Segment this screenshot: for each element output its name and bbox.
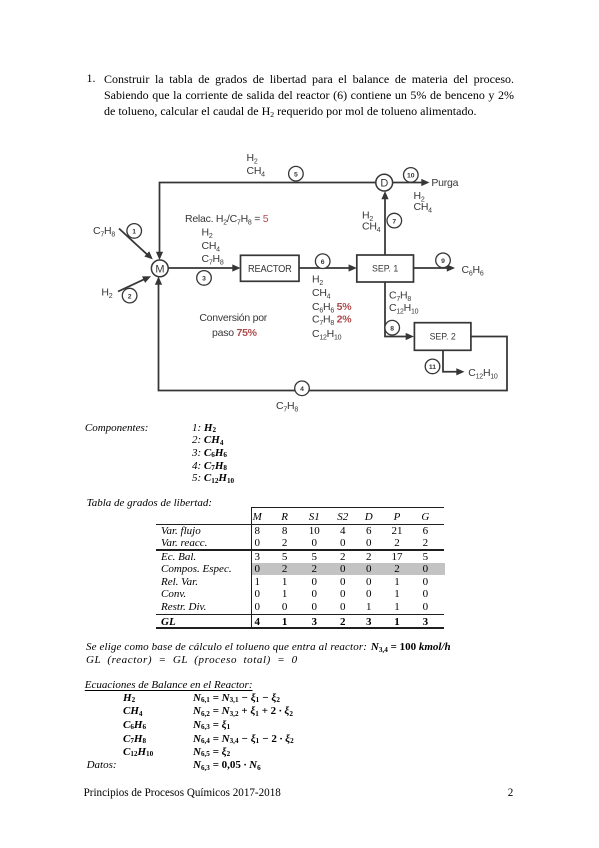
svg-text:1: 1 bbox=[132, 229, 136, 236]
svg-text:REACTOR: REACTOR bbox=[248, 263, 292, 275]
svg-text:Purga: Purga bbox=[431, 177, 458, 189]
svg-text:C7H8: C7H8 bbox=[276, 400, 298, 414]
svg-text:6: 6 bbox=[321, 259, 325, 266]
svg-text:C12H10: C12H10 bbox=[389, 302, 419, 316]
svg-text:C12H10: C12H10 bbox=[468, 367, 498, 381]
svg-text:M: M bbox=[155, 263, 164, 275]
svg-text:C6H6 5%: C6H6 5% bbox=[312, 301, 352, 315]
svg-text:D: D bbox=[380, 178, 388, 190]
svg-text:CH4: CH4 bbox=[247, 165, 266, 179]
svg-text:7: 7 bbox=[392, 218, 396, 225]
svg-text:8: 8 bbox=[390, 325, 394, 332]
svg-text:C12H10: C12H10 bbox=[312, 328, 342, 342]
svg-text:H2: H2 bbox=[247, 152, 258, 166]
svg-text:paso 75%: paso 75% bbox=[212, 327, 258, 339]
svg-text:CH4: CH4 bbox=[312, 287, 331, 301]
svg-text:Relac. H2/C7H8 = 5: Relac. H2/C7H8 = 5 bbox=[185, 213, 269, 227]
svg-text:SEP. 1: SEP. 1 bbox=[372, 264, 398, 274]
svg-text:CH4: CH4 bbox=[202, 240, 221, 254]
svg-text:3: 3 bbox=[202, 276, 206, 283]
svg-text:10: 10 bbox=[407, 173, 415, 180]
svg-text:5: 5 bbox=[294, 171, 298, 178]
svg-text:C7H8: C7H8 bbox=[389, 289, 411, 303]
svg-text:SEP. 2: SEP. 2 bbox=[430, 332, 456, 342]
svg-text:C7H8: C7H8 bbox=[93, 225, 115, 239]
svg-text:H2: H2 bbox=[312, 274, 323, 288]
svg-text:4: 4 bbox=[300, 386, 304, 393]
svg-text:9: 9 bbox=[441, 258, 445, 265]
svg-text:2: 2 bbox=[128, 293, 132, 300]
svg-text:C7H8: C7H8 bbox=[202, 253, 224, 267]
svg-text:C6H6: C6H6 bbox=[462, 264, 484, 278]
svg-text:CH4: CH4 bbox=[414, 201, 433, 215]
svg-text:C7H8 2%: C7H8 2% bbox=[312, 314, 352, 328]
svg-text:H2: H2 bbox=[101, 286, 112, 300]
svg-text:H2: H2 bbox=[202, 227, 213, 241]
svg-text:Conversión por: Conversión por bbox=[199, 312, 267, 324]
svg-text:11: 11 bbox=[429, 364, 436, 371]
svg-text:CH4: CH4 bbox=[362, 221, 381, 235]
